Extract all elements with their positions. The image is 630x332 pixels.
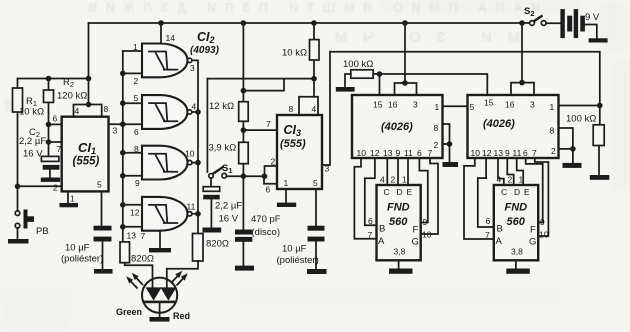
svg-text:6: 6 — [368, 216, 373, 226]
wire 4026#1 pin12 to display1 B — [365, 158, 377, 225]
wire CI3 4/8 bracket — [299, 97, 318, 115]
ground PB — [8, 239, 29, 244]
svg-text:5: 5 — [313, 178, 318, 188]
gate U2D body — [142, 197, 188, 231]
capacitor C2 2.2uF — [41, 156, 59, 161]
ground battery — [589, 38, 608, 42]
wire 4026#2 pin1 — [559, 105, 600, 107]
pushbutton PB — [17, 186, 19, 211]
wire 4026#2 pin10 to display2 A — [464, 158, 494, 239]
svg-text:14: 14 — [166, 33, 176, 43]
wire input bus 4093 — [122, 51, 124, 242]
ground CI3 pin1 — [285, 189, 287, 203]
svg-text:2: 2 — [271, 157, 276, 167]
svg-text:9: 9 — [423, 217, 428, 227]
wire 4026#1 pin15 — [379, 74, 381, 95]
svg-text:F: F — [413, 225, 419, 236]
svg-text:10 kΩ: 10 kΩ — [19, 107, 44, 118]
svg-text:100 kΩ: 100 kΩ — [566, 114, 596, 125]
svg-text:10 µF: 10 µF — [65, 243, 90, 254]
svg-text:7: 7 — [428, 148, 433, 158]
svg-text:11: 11 — [513, 148, 522, 158]
svg-text:7: 7 — [266, 119, 271, 129]
capacitor 470pF — [242, 176, 244, 265]
svg-text:8: 8 — [134, 144, 139, 154]
svg-text:3: 3 — [325, 164, 330, 174]
svg-text:Red: Red — [173, 311, 190, 321]
node rail S2 junction — [519, 20, 525, 26]
gate U2B body — [142, 95, 187, 129]
svg-text:(poliéster): (poliéster) — [61, 254, 103, 265]
svg-text:1: 1 — [402, 175, 407, 185]
ground 2.2uF — [203, 228, 222, 233]
wire top supply rail — [89, 22, 530, 24]
wire CI3 pin3 output — [322, 52, 330, 165]
svg-text:2: 2 — [391, 175, 396, 185]
switch S1 — [209, 174, 214, 179]
resistor 820 left — [120, 242, 130, 263]
svg-text:C: C — [384, 187, 390, 197]
svg-text:8: 8 — [434, 123, 439, 133]
wire 4026#2 pin9 to display2 D — [507, 158, 513, 185]
svg-text:10: 10 — [539, 230, 549, 240]
svg-text:4: 4 — [497, 175, 502, 185]
svg-text:2: 2 — [434, 140, 439, 150]
svg-text:10: 10 — [471, 148, 481, 158]
svg-text:ЗП: ЗП — [2, 98, 13, 111]
svg-text:3,9 kΩ: 3,9 kΩ — [209, 143, 237, 154]
svg-text:120 kΩ: 120 kΩ — [57, 91, 87, 102]
wire 12k tap — [243, 79, 284, 91]
wire vcc line y78.7 — [207, 78, 314, 80]
svg-text:3: 3 — [113, 126, 118, 136]
wire 4026#2 pin7 to display2 G — [535, 158, 549, 236]
svg-text:4: 4 — [192, 102, 197, 112]
svg-text:(poliéster): (poliéster) — [277, 255, 319, 266]
node 12k/3.9k pin7 — [242, 121, 244, 142]
svg-text:16: 16 — [505, 100, 515, 110]
svg-text:820Ω: 820Ω — [206, 239, 229, 250]
svg-text:4: 4 — [75, 106, 80, 116]
svg-text:10 µF: 10 µF — [282, 244, 307, 255]
wire 820 right to LED — [167, 261, 198, 288]
node rail 4026#1 — [402, 20, 408, 26]
svg-text:12: 12 — [482, 148, 492, 158]
svg-text:6: 6 — [53, 114, 58, 124]
svg-text:(555): (555) — [73, 156, 100, 168]
svg-text:(disco): (disco) — [252, 227, 281, 238]
svg-text:2: 2 — [551, 146, 556, 156]
wire CI1 4/8 bracket — [74, 105, 102, 117]
svg-text:1: 1 — [550, 102, 555, 112]
wire 4026#2 16/3 bracket — [511, 83, 534, 95]
svg-text:15: 15 — [373, 100, 383, 110]
svg-text:1: 1 — [435, 102, 440, 112]
wire CI3 pin7 — [243, 129, 277, 131]
wire 4026#2 pin11 to display2 E — [517, 158, 524, 185]
node rail pin14 — [158, 20, 164, 26]
wire CI1 pin2 — [18, 185, 62, 187]
resistor R2 120k — [48, 79, 50, 157]
ground 4093 pin7 — [159, 231, 161, 248]
wire 4026#1 pin11 to display1 E — [407, 158, 409, 185]
capacitor 2.2uF S1 — [210, 178, 212, 187]
svg-text:10: 10 — [357, 148, 367, 158]
svg-text:6: 6 — [486, 216, 491, 226]
svg-text:(4093): (4093) — [190, 45, 220, 56]
svg-text:2: 2 — [134, 76, 139, 86]
svg-text:(4026): (4026) — [483, 118, 515, 130]
ground display2 — [515, 260, 517, 268]
svg-text:10: 10 — [422, 230, 432, 240]
svg-text:A: A — [496, 236, 503, 247]
svg-text:A: A — [378, 236, 385, 247]
wire CI3 pin2 jog — [265, 166, 278, 176]
svg-text:7: 7 — [485, 230, 490, 240]
resistor 3.9k — [239, 142, 249, 163]
svg-text:7: 7 — [368, 230, 373, 240]
svg-text:8: 8 — [104, 104, 109, 114]
node rail 10k — [311, 20, 317, 26]
wire gate1 inputs — [123, 51, 142, 73]
ground display1 — [398, 260, 400, 268]
resistor 100k left — [351, 70, 373, 78]
wire 4026#1 8/2 to ground — [443, 124, 450, 162]
svg-text:15: 15 — [484, 98, 494, 108]
counter 4026 #2 box — [468, 95, 559, 158]
capacitor 10uF poliester left — [102, 191, 103, 269]
ground 100k right — [590, 175, 610, 180]
svg-text:7: 7 — [57, 144, 62, 154]
wire CI1 pin3 to gate bus — [109, 123, 123, 125]
svg-text:16 V: 16 V — [219, 214, 239, 225]
wire clock line y=51.7 from CI3 pin3 to right 100k — [330, 52, 600, 106]
svg-text:2: 2 — [508, 175, 513, 185]
display FND560 #2 — [494, 185, 538, 260]
svg-text:2: 2 — [53, 183, 58, 193]
wire 820 left to LED — [125, 263, 153, 288]
svg-text:E: E — [407, 187, 413, 197]
svg-text:D: D — [397, 187, 403, 197]
node clock/pin1 junction — [597, 103, 603, 109]
wire 4026#1 pin6 to display1 F — [419, 158, 427, 223]
svg-text:560: 560 — [389, 216, 408, 228]
resistor 12k — [242, 23, 244, 102]
ground CI1 pin1 — [67, 191, 69, 203]
wire pin14 — [160, 23, 162, 44]
timer CI3 555 box — [277, 115, 322, 189]
svg-text:10: 10 — [185, 149, 195, 159]
wire 4026#1 pin7 to display1 G — [421, 158, 438, 234]
wire CI3 pin6 jog — [264, 176, 277, 184]
wire 4026#1 pin13 to display1 C — [386, 158, 388, 185]
ground C2 — [41, 178, 60, 182]
svg-text:9: 9 — [396, 148, 401, 158]
arrows LED left — [130, 280, 138, 289]
counter 4026 #1 box — [352, 95, 443, 158]
svg-text:9: 9 — [505, 148, 510, 158]
wire gate4 inputs — [123, 205, 142, 227]
svg-text:16: 16 — [388, 100, 398, 110]
svg-text:9 V: 9 V — [585, 12, 600, 23]
svg-text:2,2 µF: 2,2 µF — [215, 201, 242, 212]
resistor 100k right — [598, 106, 601, 176]
svg-text:1: 1 — [70, 194, 75, 204]
svg-text:B: B — [379, 224, 385, 235]
wire rail down to 4026#1 bracket — [404, 23, 406, 83]
wire 4026#1 16/3 bracket — [395, 83, 417, 95]
arrows LED right — [177, 277, 185, 286]
wire 4026#2 pin13 to display2 C — [498, 158, 504, 185]
svg-text:(555): (555) — [280, 138, 306, 150]
svg-text:D: D — [514, 187, 520, 197]
svg-text:12 kΩ: 12 kΩ — [209, 101, 234, 112]
svg-text:8: 8 — [550, 126, 555, 136]
wire battery to ground — [585, 25, 597, 39]
wire vcc down to S1 — [206, 79, 208, 172]
svg-text:3,8: 3,8 — [394, 247, 406, 257]
svg-text:3: 3 — [190, 63, 195, 73]
svg-text:13: 13 — [494, 148, 504, 158]
svg-text:F: F — [530, 225, 536, 236]
svg-text:11: 11 — [404, 148, 413, 158]
wire CI1 pin6 — [49, 123, 62, 125]
svg-text:FND: FND — [387, 202, 410, 214]
wire 4026#1 pin10 to display1 A — [354, 158, 376, 239]
wire 4026#1 pin9 to display1 D — [397, 158, 399, 185]
svg-text:10 kΩ: 10 kΩ — [282, 48, 307, 59]
svg-text:7: 7 — [141, 231, 146, 241]
ground 470pF — [235, 266, 254, 271]
svg-text:FND: FND — [505, 202, 528, 214]
capacitor 10uF poliester right — [315, 189, 317, 269]
svg-text:16 V: 16 V — [23, 149, 43, 160]
svg-text:3: 3 — [413, 100, 418, 110]
svg-text:470 pF: 470 pF — [251, 214, 281, 225]
svg-text:9: 9 — [540, 217, 545, 227]
svg-text:C: C — [501, 187, 507, 197]
svg-text:G: G — [529, 237, 536, 248]
node R2/pin6 — [46, 122, 52, 128]
svg-text:5: 5 — [134, 93, 139, 103]
display FND560 #1 — [377, 185, 421, 260]
svg-text:11: 11 — [187, 202, 196, 212]
wire R1/R2 top — [18, 78, 89, 80]
svg-text:4: 4 — [380, 175, 385, 185]
wire gate3 inputs — [123, 153, 142, 176]
svg-text:4: 4 — [312, 104, 317, 114]
resistor 820 right — [193, 234, 204, 262]
op-amp CI1 555 box — [62, 117, 109, 192]
svg-text:3: 3 — [530, 100, 535, 110]
svg-text:6: 6 — [266, 185, 271, 195]
gate U2C body — [142, 146, 188, 180]
svg-text:6: 6 — [134, 127, 139, 137]
svg-text:560: 560 — [507, 216, 526, 228]
svg-text:100 kΩ: 100 kΩ — [343, 59, 373, 70]
wire CI1 pin7 — [49, 141, 62, 143]
node rail 12k chain — [241, 20, 247, 26]
svg-text:(4026): (4026) — [381, 121, 413, 133]
svg-text:8: 8 — [289, 104, 294, 114]
svg-text:1: 1 — [519, 175, 524, 185]
resistor 10k top — [313, 23, 315, 79]
wire S2 to battery — [546, 22, 560, 24]
wire 4026#1 pin1 to 4026#2 pin5 — [443, 105, 468, 107]
svg-text:5: 5 — [470, 102, 475, 112]
svg-text:3,8: 3,8 — [511, 247, 523, 257]
svg-text:6: 6 — [417, 148, 422, 158]
LED bicolor — [142, 278, 177, 313]
battery B1 9V — [560, 9, 564, 38]
wire 4026#2 8/2 to ground — [559, 128, 573, 163]
svg-text:5: 5 — [97, 180, 102, 190]
wire S2 junction down to 4026#2 bracket — [521, 23, 523, 83]
svg-text:1: 1 — [133, 42, 138, 52]
wire 4026#2 pin6 to display2 F — [526, 158, 543, 223]
svg-text:E: E — [524, 187, 530, 197]
resistor R1 10k — [17, 79, 19, 187]
svg-text:820Ω: 820Ω — [131, 254, 154, 265]
svg-text:PB: PB — [36, 226, 49, 237]
switch S2 — [530, 21, 535, 26]
gate U2A body — [142, 44, 188, 78]
wire gate2 inputs — [123, 103, 142, 124]
svg-text:B: B — [497, 224, 503, 235]
ground LED — [150, 317, 170, 322]
wire 4026#2 pin12 to display2 B — [478, 158, 494, 227]
svg-text:9: 9 — [135, 178, 140, 188]
node rail-R2 corner — [88, 23, 90, 105]
svg-text:12: 12 — [370, 148, 380, 158]
svg-text:G: G — [412, 237, 419, 248]
svg-text:13: 13 — [127, 231, 137, 241]
svg-text:12: 12 — [130, 208, 140, 218]
svg-text:13: 13 — [383, 148, 393, 158]
wire S1 to trig node — [227, 175, 265, 177]
svg-text:6: 6 — [523, 148, 528, 158]
svg-text:1: 1 — [284, 178, 289, 188]
wire output bus 4093 — [192, 60, 198, 233]
svg-text:2,2 µF: 2,2 µF — [19, 136, 46, 147]
svg-text:7: 7 — [532, 148, 537, 158]
svg-text:Green: Green — [116, 307, 142, 317]
